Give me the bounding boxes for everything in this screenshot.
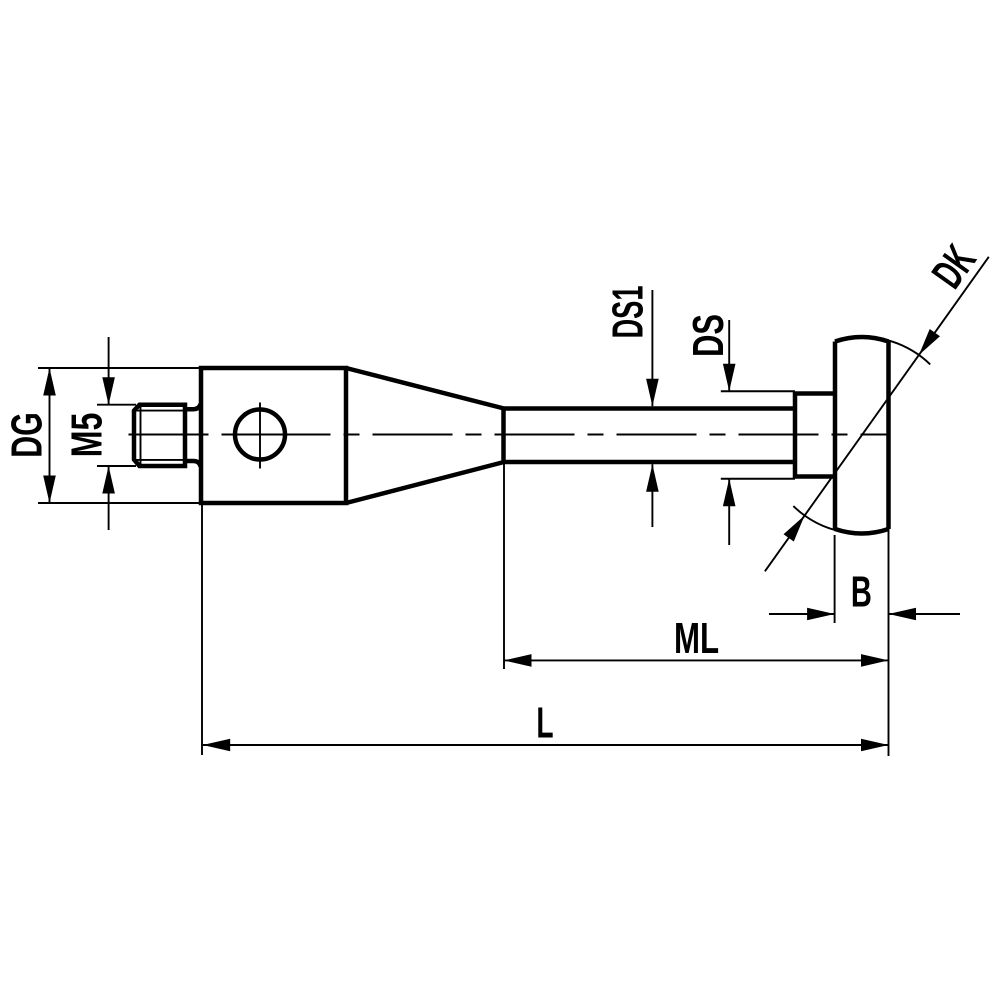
- svg-text:L: L: [536, 698, 553, 747]
- svg-text:DS: DS: [685, 314, 734, 357]
- svg-text:B: B: [851, 566, 872, 616]
- threaded stud M5: [134, 405, 185, 466]
- dimension B: [769, 535, 960, 623]
- dimension M5: [97, 337, 136, 530]
- neck undercut top: [185, 404, 201, 409]
- dimension DS1: [651, 290, 653, 527]
- dimension L: [202, 503, 889, 756]
- dimension DG: [38, 368, 201, 503]
- thread minor line top: [136, 410, 185, 412]
- shaft stem bottom: [504, 460, 795, 465]
- DK arc top: [848, 337, 930, 365]
- dimension DK diagonal: [765, 257, 989, 572]
- body block: [201, 368, 346, 503]
- shaft stem top: [504, 406, 795, 411]
- cross hole circle: [235, 410, 285, 460]
- taper cone top: [346, 368, 504, 409]
- DK arc bottom: [793, 506, 841, 531]
- svg-text:M5: M5: [63, 413, 112, 458]
- svg-text:ML: ML: [674, 614, 719, 664]
- taper cone bottom: [346, 462, 504, 503]
- centerline: [129, 434, 891, 436]
- svg-text:DG: DG: [3, 412, 52, 458]
- collar hub: [795, 394, 835, 477]
- neck undercut bottom: [185, 461, 201, 467]
- svg-text:DS1: DS1: [603, 285, 652, 338]
- dimension DS: [721, 320, 795, 545]
- circle vertical crosshair: [259, 403, 261, 469]
- dimension ML: [504, 462, 889, 669]
- thread chamfer line: [140, 407, 142, 465]
- disk: [835, 337, 889, 534]
- circle horizontal crosshair: [233, 434, 289, 436]
- thread minor line bottom: [136, 459, 185, 461]
- taper shaft junction face: [501, 409, 506, 463]
